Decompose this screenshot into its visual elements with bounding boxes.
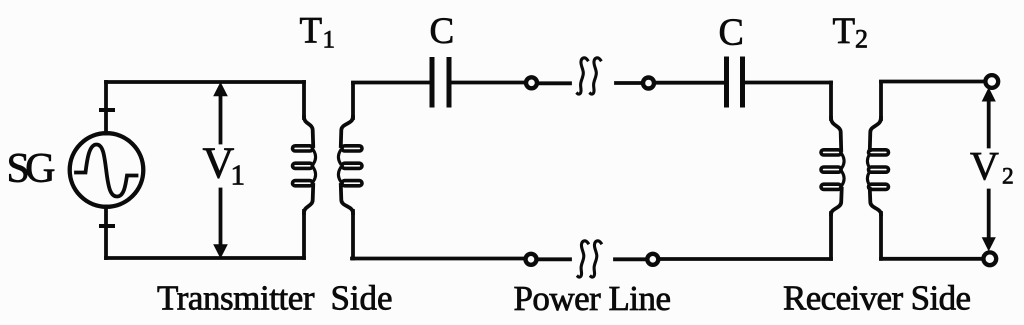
terminal node bottom-right of power line	[647, 254, 658, 265]
wire loop1 bottom	[106, 256, 304, 260]
capacitor C left	[432, 60, 449, 106]
voltage arrow V1	[214, 83, 227, 258]
wire terminal to break	[539, 81, 570, 85]
wire loop3 bottom	[881, 257, 982, 261]
svg-text:Transmitter: Transmitter	[157, 279, 315, 318]
svg-text:Receiver Side: Receiver Side	[783, 279, 971, 318]
svg-text:C: C	[430, 11, 455, 52]
terminal node top-right open	[985, 75, 998, 88]
wire C right to T2	[745, 81, 831, 85]
terminal node bottom-left of power line	[526, 254, 537, 265]
terminal node bottom-right open	[983, 252, 996, 265]
transformer T1 primary winding	[293, 82, 316, 258]
wire loop1 top	[106, 80, 304, 84]
wire loop2 top: T1 to C	[353, 81, 429, 85]
svg-text:Side: Side	[331, 279, 393, 318]
wire loop2 bottom: T1 to terminal	[352, 257, 524, 261]
transformer T2 primary winding	[821, 83, 844, 259]
svg-text:Power Line: Power Line	[514, 279, 672, 318]
wire break to terminal	[616, 81, 641, 85]
svg-text:2: 2	[1002, 164, 1014, 190]
svg-text:2: 2	[855, 25, 868, 54]
power line break marks bottom	[578, 241, 601, 277]
svg-text:V: V	[970, 144, 999, 189]
power line break marks top	[578, 58, 601, 94]
transformer T2 secondary winding	[867, 82, 888, 259]
wire break to terminal bottom	[615, 257, 646, 261]
wire loop1 left lower	[104, 207, 108, 259]
transformer T1 secondary winding	[338, 83, 362, 259]
svg-text:1: 1	[323, 27, 336, 54]
wire terminal to C right	[656, 81, 724, 85]
terminal tick lower	[101, 224, 113, 228]
wire loop3 top	[881, 80, 984, 84]
svg-text:SG: SG	[7, 146, 56, 192]
svg-text:T: T	[300, 11, 323, 52]
svg-text:T: T	[833, 11, 856, 52]
terminal tick upper	[101, 108, 113, 112]
wire loop1 left upper	[104, 82, 108, 134]
terminal node top-left of power line	[526, 77, 537, 88]
voltage arrow V2	[983, 89, 996, 251]
wire C to terminal	[452, 81, 524, 85]
capacitor C right	[727, 59, 743, 105]
svg-text:1: 1	[231, 160, 246, 192]
wire terminal to T2 bottom	[660, 257, 831, 261]
wire terminal to break bottom	[539, 257, 571, 261]
svg-text:C: C	[719, 12, 744, 54]
terminal node top-right of power line	[643, 78, 654, 89]
signal generator SG	[70, 133, 144, 207]
